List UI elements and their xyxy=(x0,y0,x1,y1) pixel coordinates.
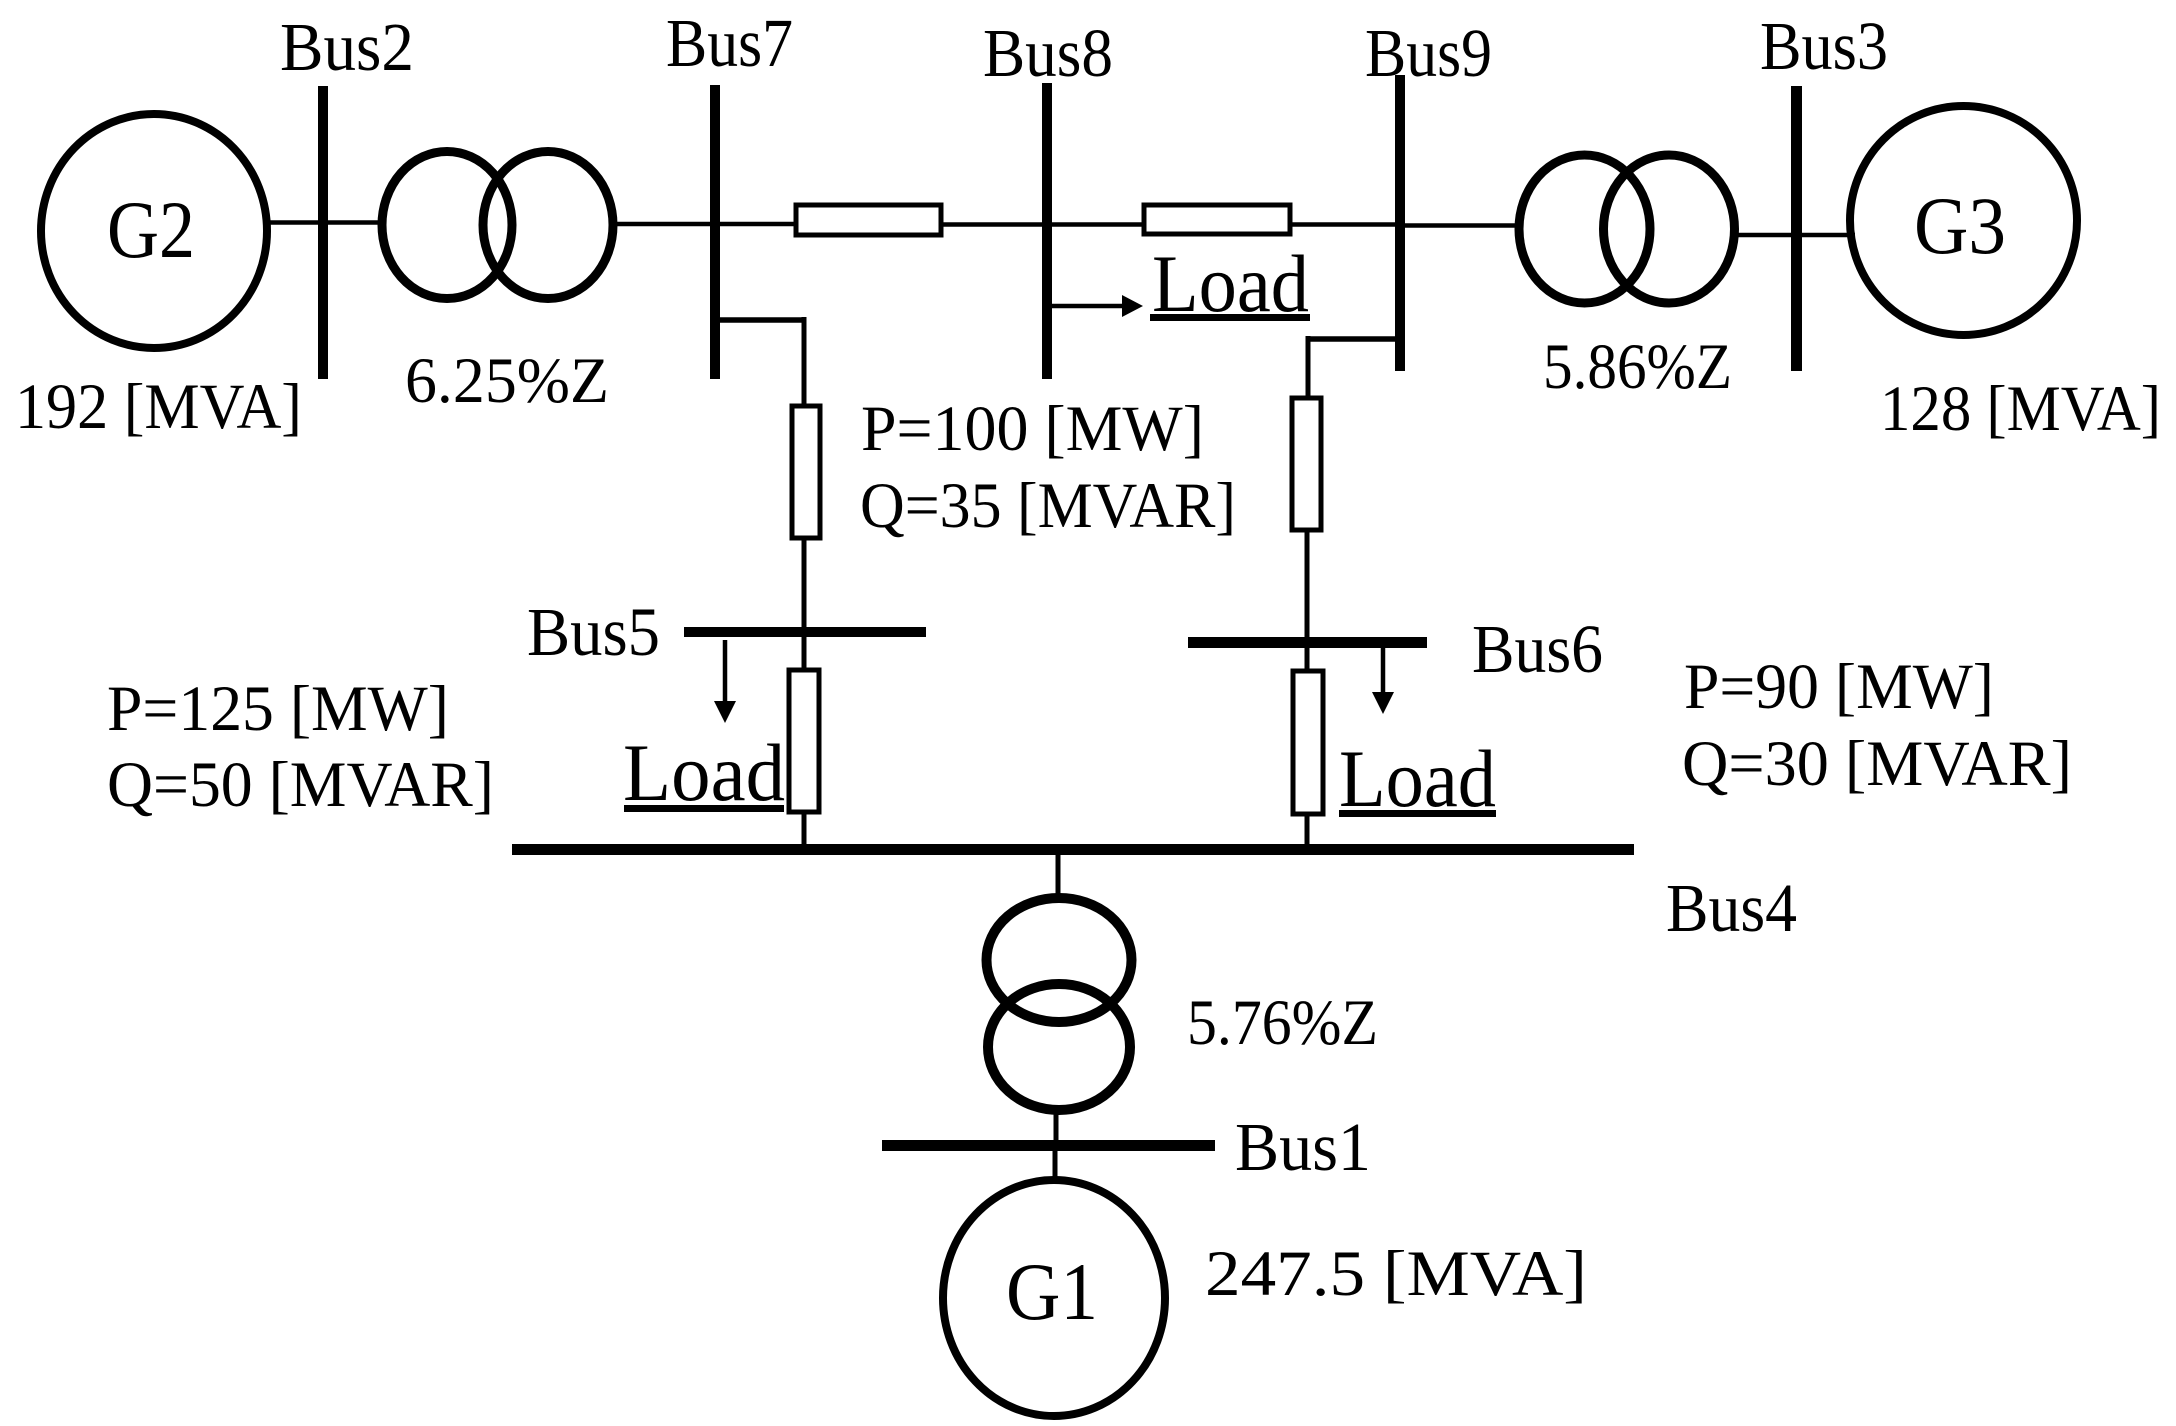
transmission line 8-9 impedance xyxy=(1144,205,1290,234)
svg-text:6.25%Z: 6.25%Z xyxy=(405,345,609,417)
transformer T3 (5.86%Z) xyxy=(1519,155,1735,303)
wire T1 to Bus1 xyxy=(1054,1110,1059,1143)
generator G2 xyxy=(41,114,267,348)
bus Bus9 xyxy=(1395,75,1405,371)
svg-text:Bus3: Bus3 xyxy=(1760,8,1888,84)
wire T3 to Bus3 to G3 xyxy=(1735,233,1855,238)
svg-text:Bus4: Bus4 xyxy=(1666,870,1797,946)
svg-text:128 [MVA]: 128 [MVA] xyxy=(1880,373,2161,445)
wire T2 to Bus7 xyxy=(613,222,800,227)
bus Bus8 xyxy=(1042,83,1052,379)
bus Bus1 xyxy=(882,1140,1215,1151)
generator G3 xyxy=(1850,106,2077,335)
wire vertical Bus7 to line impedance xyxy=(802,317,807,406)
bus Bus6 xyxy=(1188,637,1427,648)
svg-text:247.5 [MVA]: 247.5 [MVA] xyxy=(1205,1238,1587,1310)
wire Bus4 to transformer T1 xyxy=(1056,855,1061,898)
line 6-9 impedance xyxy=(1292,398,1321,530)
wire Bus5 to load impedance xyxy=(802,637,807,672)
load arrow at Bus8 xyxy=(1052,295,1143,317)
svg-text:5.86%Z: 5.86%Z xyxy=(1543,331,1732,403)
bus Bus7 xyxy=(710,85,720,379)
svg-text:Bus9: Bus9 xyxy=(1365,15,1492,91)
transformer T2 (6.25%Z) xyxy=(382,152,613,299)
load label Load (Bus5) xyxy=(623,727,785,818)
svg-text:5.76%Z: 5.76%Z xyxy=(1187,987,1378,1059)
bus Bus3 xyxy=(1791,86,1802,371)
generator G1 xyxy=(943,1180,1165,1416)
wire load impedance to Bus4 xyxy=(802,812,807,846)
wire Bus1 to G1 xyxy=(1053,1151,1058,1182)
wire impedance to Bus5 xyxy=(802,538,807,630)
bus Bus2 xyxy=(318,86,328,379)
wire line7-8 to Bus8 to line8-9 xyxy=(941,222,1144,227)
wire Bus7 branch stub xyxy=(715,317,806,323)
load impedance at Bus5 xyxy=(789,670,819,812)
svg-text:P=125 [MW]: P=125 [MW] xyxy=(107,673,449,745)
svg-text:Q=30 [MVAR]: Q=30 [MVAR] xyxy=(1682,728,2072,800)
load impedance at Bus6 xyxy=(1293,671,1323,814)
wire impedance to Bus6 xyxy=(1305,530,1310,640)
bus Bus5 xyxy=(684,627,926,637)
svg-text:Q=35 [MVAR]: Q=35 [MVAR] xyxy=(860,470,1236,542)
line 5-7 impedance xyxy=(792,406,820,538)
svg-text:Bus7: Bus7 xyxy=(666,5,793,81)
svg-text:G3: G3 xyxy=(1914,180,2006,271)
wire vertical Bus9 to line impedance xyxy=(1306,336,1311,398)
svg-text:192 [MVA]: 192 [MVA] xyxy=(15,371,302,443)
svg-text:Bus5: Bus5 xyxy=(527,594,660,670)
svg-text:P=100 [MW]: P=100 [MW] xyxy=(861,393,1204,465)
bus Bus4 xyxy=(512,844,1634,855)
wire Bus6 to load impedance xyxy=(1305,648,1310,673)
load label Load (Bus8) xyxy=(1150,238,1310,329)
wire Bus9 branch stub xyxy=(1308,336,1395,342)
wire load impedance to Bus4 xyxy=(1305,814,1310,846)
transformer T1 (5.76%Z) xyxy=(987,898,1132,1110)
load label Load (Bus6) xyxy=(1339,733,1496,824)
svg-text:Bus1: Bus1 xyxy=(1235,1109,1371,1185)
wire Bus9 to transformer T3 xyxy=(1400,223,1520,228)
svg-text:Q=50 [MVAR]: Q=50 [MVAR] xyxy=(107,749,494,821)
svg-text:Load: Load xyxy=(623,727,785,818)
svg-text:Bus8: Bus8 xyxy=(983,15,1113,91)
transmission line 7-8 impedance xyxy=(796,205,941,235)
load arrow at Bus6 xyxy=(1372,648,1394,714)
svg-text:Bus2: Bus2 xyxy=(280,9,414,85)
svg-text:Bus6: Bus6 xyxy=(1472,611,1603,687)
svg-text:G2: G2 xyxy=(107,184,195,275)
wire line8-9 to Bus9 xyxy=(1290,222,1400,227)
wire G2 to Bus2 to transformer T2 xyxy=(265,220,384,225)
svg-text:P=90 [MW]: P=90 [MW] xyxy=(1684,651,1994,723)
load arrow at Bus5 xyxy=(714,640,736,723)
svg-text:G1: G1 xyxy=(1006,1246,1098,1337)
